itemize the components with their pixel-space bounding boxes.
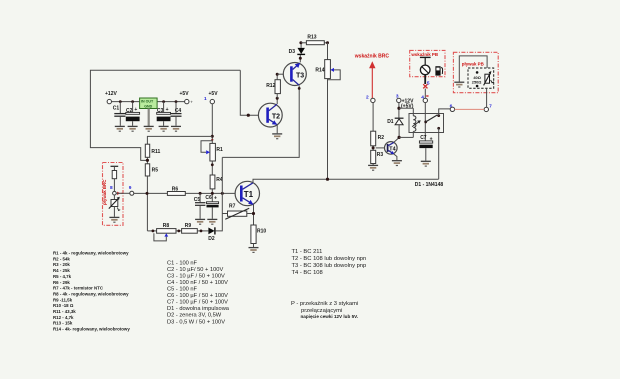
svg-text:R6: R6 [172, 186, 179, 192]
svg-text:T3 - BC 308 lub dowolny pnp: T3 - BC 308 lub dowolny pnp [292, 263, 367, 269]
svg-text:T1: T1 [244, 190, 254, 199]
node 9 [129, 185, 134, 196]
float box plywak PB [453, 52, 498, 92]
wire float sensor top loop [459, 56, 487, 82]
svg-text:1: 1 [204, 96, 207, 102]
svg-text:C6 - 100 µF / 50 + 100V: C6 - 100 µF / 50 + 100V [167, 293, 228, 299]
ground R3 [368, 165, 378, 170]
ground T2 [272, 134, 282, 139]
svg-text:R8 - 4k - regulowany, wieloobr: R8 - 4k - regulowany, wieloobrotowy [53, 292, 129, 297]
svg-text:C7: C7 [420, 135, 427, 141]
svg-text:T4 - BC 108: T4 - BC 108 [292, 270, 323, 276]
svg-text:+5V: +5V [180, 91, 190, 97]
wire terminal4 to common contact [424, 103, 426, 141]
svg-text:C1: C1 [113, 106, 120, 112]
wire input line to R6 [134, 192, 168, 195]
svg-text:R2: R2 [378, 135, 385, 141]
svg-text:R5: R5 [152, 168, 159, 174]
svg-text:T2 - BC 108 lub dowolny npn: T2 - BC 108 lub dowolny npn [292, 256, 367, 262]
resistor R5 [145, 164, 158, 176]
svg-text:5: 5 [427, 80, 430, 86]
svg-text:R14: R14 [315, 68, 324, 74]
wire to T2 base [240, 70, 258, 117]
relay contact NC [437, 127, 440, 130]
ground R10 [249, 248, 259, 253]
svg-text:D3: D3 [289, 49, 296, 55]
svg-text:pływak PB: pływak PB [462, 62, 484, 67]
wire NO to terminal 6 [439, 109, 451, 116]
wire T2 emitter to ground [276, 125, 278, 133]
sensor box plywak BRC [102, 163, 123, 226]
node 8 [110, 185, 116, 195]
terminal 1 [210, 99, 214, 103]
wire R9 to D2 [197, 230, 208, 233]
ground C6 [207, 219, 217, 224]
svg-text:R3: R3 [377, 152, 384, 158]
regulator ground lead [148, 109, 150, 127]
node C2 rail [131, 100, 134, 103]
svg-text:+: + [190, 100, 193, 105]
capacitor C1 [113, 102, 126, 126]
potentiometer R14 [315, 60, 340, 80]
svg-text:D1 - 1N4148: D1 - 1N4148 [415, 182, 444, 188]
svg-text:D2: D2 [208, 236, 215, 242]
svg-text:R4 - 25k: R4 - 25k [53, 268, 70, 273]
wire node8 to terminal 9 [116, 192, 130, 194]
transistor T4 [385, 142, 398, 155]
wire float sensor to terminal 7 [486, 88, 488, 107]
svg-text:D1 - dowolna impulsowa: D1 - dowolna impulsowa [167, 306, 230, 312]
wire +12V rail [112, 101, 185, 103]
svg-text:R11 - 43,3k: R11 - 43,3k [53, 309, 76, 314]
capacitor C6 [205, 195, 218, 219]
svg-text:T1 - BC 211: T1 - BC 211 [292, 249, 323, 255]
svg-text:R3 - 20k: R3 - 20k [53, 262, 70, 267]
svg-text:P - przekaźnik z 3 stykami: P - przekaźnik z 3 stykami [291, 301, 358, 307]
svg-text:R7: R7 [229, 204, 236, 210]
wire R6 to T1 base [185, 192, 235, 195]
potentiometer R1 [201, 141, 223, 161]
svg-text:+5V: +5V [209, 91, 219, 97]
svg-text:C5: C5 [194, 197, 201, 203]
wire R12 to T3 base [276, 73, 284, 80]
resistor R3 [371, 150, 384, 163]
red tap arrow [117, 192, 123, 195]
terminal +12V [107, 99, 111, 103]
indicator box wskaznik PB [410, 50, 445, 76]
node 4 [421, 95, 428, 103]
wire T3 emitter to D3 [299, 55, 302, 63]
wire R5 down [146, 176, 148, 231]
ground plywak PB [454, 82, 464, 87]
wire T1 emitter [252, 205, 255, 226]
wire R1 to R4 [211, 161, 214, 175]
svg-text:R14 - 4k- regulowany, wieloobr: R14 - 4k- regulowany, wieloobrotowy [53, 327, 130, 332]
float sensor potentiometer [484, 71, 494, 85]
svg-text:R13 - 15k: R13 - 15k [53, 321, 73, 326]
svg-text:R1 - 4k - regulowany, wieloobr: R1 - 4k - regulowany, wieloobrotowy [53, 251, 129, 256]
diode D3 [289, 43, 306, 55]
transistor T1 [235, 181, 259, 205]
relay switch arm [426, 115, 438, 122]
svg-text:IN OUT: IN OUT [141, 100, 154, 104]
resistor R4 [210, 175, 223, 189]
thermistor R7 [222, 204, 252, 220]
node 7 [484, 104, 492, 112]
relay common contact [424, 121, 427, 124]
sensor resistor [112, 171, 116, 179]
node C1 rail [119, 100, 122, 103]
capacitor C3 [157, 102, 171, 126]
ground regulator [144, 126, 154, 131]
connector X mark [423, 84, 427, 88]
svg-text:wskaźnik BRC: wskaźnik BRC [354, 54, 390, 60]
svg-text:250Ω: 250Ω [472, 80, 482, 85]
svg-text:R11: R11 [151, 149, 160, 155]
potentiometer R8 [154, 223, 176, 241]
resistor R9 [182, 223, 198, 233]
regulator U1 [140, 98, 158, 109]
wire terminal2 to R2 [372, 103, 374, 132]
gauge lead [424, 75, 426, 84]
svg-text:9: 9 [129, 185, 132, 191]
wire R11 branch [147, 136, 212, 144]
ground C5 [195, 219, 205, 224]
svg-text:C3 - 10 µF / 50 + 100V: C3 - 10 µF / 50 + 100V [167, 273, 225, 279]
svg-text:T2: T2 [272, 113, 280, 120]
svg-text:R9 -11,5k: R9 -11,5k [53, 297, 73, 302]
node 3 [396, 94, 401, 103]
resistor R12 [266, 80, 280, 99]
wire sensor to ground [113, 207, 115, 217]
node coil bottom [398, 136, 414, 139]
svg-text:T3: T3 [296, 73, 304, 80]
sensor potentiometer [109, 195, 120, 211]
relay contact NO [437, 114, 440, 117]
svg-text:8: 8 [110, 185, 113, 191]
capacitor C5 [194, 193, 206, 218]
wire T2 collector [276, 97, 279, 104]
ground plywak BRC [109, 217, 119, 222]
node R2 R3 [372, 146, 375, 151]
wire coil top branch [399, 107, 413, 109]
svg-text:R10 -18 Ω: R10 -18 Ω [53, 303, 74, 308]
svg-text:R12: R12 [266, 83, 275, 89]
note relay [291, 301, 358, 319]
gauge antenna [420, 57, 431, 65]
svg-text:R8: R8 [163, 223, 170, 229]
wire +5V down to R1 [211, 104, 214, 144]
wire terminal3 to D1 [397, 103, 400, 118]
float sensor inner box [468, 68, 494, 88]
wire NC to T1 collector line [438, 128, 440, 179]
svg-text:GND: GND [144, 104, 152, 108]
svg-text:R7 - 47k - termistor NTC: R7 - 47k - termistor NTC [53, 286, 104, 291]
svg-text:2: 2 [366, 94, 369, 100]
wire D2 to T1 base line [216, 157, 223, 231]
node 6 [450, 104, 455, 112]
svg-text:wskaźnik PB: wskaźnik PB [410, 52, 438, 57]
svg-text:R6 - 29k: R6 - 29k [53, 280, 70, 285]
ground C4 [171, 126, 181, 131]
wire X to terminal 4 [424, 89, 426, 99]
wire terminal6 to terminal7 red [455, 108, 485, 110]
svg-text:C4 - 100 nF / 50 + 100V: C4 - 100 nF / 50 + 100V [167, 280, 228, 286]
svg-text:C2 - 10 µF/ 50 + 100V: C2 - 10 µF/ 50 + 100V [167, 267, 223, 273]
wire R8 to R9 [176, 230, 182, 233]
arrow wskaznik BRC [369, 61, 375, 100]
svg-text:R9: R9 [185, 223, 192, 229]
resistor R2 [371, 131, 385, 146]
ground T4 [392, 161, 402, 166]
svg-text:+: + [214, 195, 217, 201]
transistor T2 [258, 103, 282, 127]
ground C7 [421, 161, 431, 166]
gauge dial [420, 65, 430, 75]
svg-text:+12V: +12V [105, 91, 117, 97]
svg-text:R13: R13 [307, 35, 316, 41]
wire T4 collector [394, 137, 399, 142]
wire R4 to C6 [211, 189, 213, 202]
node 2 [366, 94, 375, 102]
svg-text:D1: D1 [387, 119, 394, 125]
svg-text:R1: R1 [216, 147, 223, 153]
svg-text:C5 - 100 nF: C5 - 100 nF [167, 287, 198, 293]
node R11-R5 junction [146, 157, 149, 164]
fuel pump icon [435, 66, 442, 75]
ground C3 [159, 126, 169, 131]
float sensor contact bottom [476, 85, 479, 88]
node C4 rail [175, 100, 178, 103]
wire T1 collector [253, 179, 439, 183]
float pivot bar [111, 166, 119, 170]
float sensor contact top [476, 71, 479, 74]
wire R3 to ground [372, 164, 374, 166]
svg-text:7: 7 [489, 104, 492, 110]
resistor R11 [145, 144, 160, 157]
wire left loop [90, 70, 240, 160]
relay P box [409, 114, 444, 133]
svg-text:pływak BRC: pływak BRC [102, 179, 107, 205]
capacitor C2 [126, 102, 140, 126]
wire T3 collector down-left [222, 85, 300, 157]
svg-text:napięcie cewki 12V lub 5V.: napięcie cewki 12V lub 5V. [301, 314, 359, 319]
wire T4 emitter to ground [394, 154, 397, 160]
resistor R13 [306, 35, 324, 45]
transistor T3 [283, 63, 306, 86]
wire left line to R8 [147, 230, 156, 233]
parts list resistors [53, 251, 130, 332]
svg-text:D2 - zenera 3V, 0,5W: D2 - zenera 3V, 0,5W [167, 313, 222, 319]
ground C2 [128, 126, 138, 131]
parts list capacitors diodes [167, 260, 230, 325]
diode D2 [208, 227, 215, 242]
diode D1 [387, 118, 403, 137]
node C3 rail [162, 100, 165, 103]
ground C1 [115, 126, 125, 131]
svg-text:R12 - 4,7k: R12 - 4,7k [53, 315, 74, 320]
parts list transistors [292, 249, 367, 276]
capacitor C4 [171, 102, 182, 126]
relay coil arrow [412, 120, 421, 126]
wire sensor to node [113, 179, 115, 192]
wire R13 to R14 [324, 41, 329, 59]
wire R14 down [326, 79, 329, 181]
resistor R10 [251, 225, 266, 244]
svg-text:D3 - 0,5 W / 50 + 100V: D3 - 0,5 W / 50 + 100V [167, 319, 225, 325]
svg-text:C7 - 100 µF / 50 + 100V: C7 - 100 µF / 50 + 100V [167, 300, 228, 306]
relay coil [413, 108, 416, 137]
svg-text:R5 - 4,7k: R5 - 4,7k [53, 274, 72, 279]
terminal +5V [185, 99, 194, 104]
svg-text:R2 - 54k: R2 - 54k [53, 256, 70, 261]
node D3 R13 [299, 41, 306, 44]
wire R10 to ground [253, 244, 255, 248]
svg-text:C1 - 100 nF: C1 - 100 nF [167, 260, 198, 266]
resistor R6 [167, 186, 185, 195]
wire base T4 [376, 147, 385, 149]
capacitor C7 [419, 135, 432, 161]
svg-text:R10: R10 [257, 228, 266, 234]
svg-text:C6: C6 [205, 195, 212, 201]
